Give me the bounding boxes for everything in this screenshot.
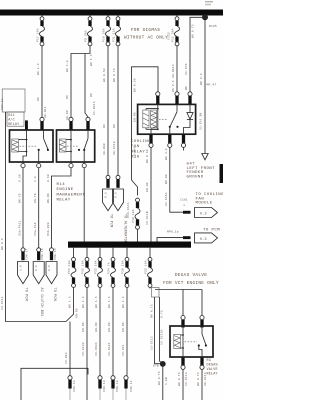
wire R14 coil out bbox=[46, 168, 71, 248]
svg-text:15-DC1: 15-DC1 bbox=[122, 344, 125, 356]
pin C90.12 bbox=[111, 376, 115, 380]
relay R10 box bbox=[138, 104, 196, 134]
svg-text:30-R9: 30-R9 bbox=[66, 110, 69, 120]
svg-text:WK 0.50: WK 0.50 bbox=[146, 149, 149, 163]
wire R11 coil out bbox=[17, 168, 23, 248]
label note R11 A/C RELAY bbox=[7, 112, 24, 127]
svg-text:GN-RD: GN-RD bbox=[122, 322, 125, 332]
svg-text:0.50: 0.50 bbox=[18, 174, 21, 182]
wire degas feed top bbox=[155, 290, 202, 316]
svg-text:GROUND: GROUND bbox=[187, 175, 204, 179]
off-page arrow to PCM mid bbox=[103, 189, 114, 227]
pin C90.14 bbox=[68, 376, 72, 380]
mech link R3 bbox=[185, 341, 198, 343]
svg-text:MANAGEMENT: MANAGEMENT bbox=[57, 193, 86, 197]
svg-text:P10 30A: P10 30A bbox=[103, 28, 106, 42]
svg-text:RD: RD bbox=[37, 97, 40, 101]
svg-text:WK 0.75: WK 0.75 bbox=[178, 372, 181, 386]
svg-text:DEGAS VALVE: DEGAS VALVE bbox=[175, 273, 207, 278]
svg-text:G7B: G7B bbox=[153, 365, 159, 368]
svg-text:P38 10A: P38 10A bbox=[122, 260, 125, 274]
svg-text:BK: BK bbox=[185, 86, 188, 90]
relay R10 coil and resistor bbox=[143, 104, 159, 130]
svg-text:BK 0.75: BK 0.75 bbox=[150, 304, 153, 318]
svg-text:FOR VCT ENGINE ONLY: FOR VCT ENGINE ONLY bbox=[163, 281, 219, 286]
svg-text:ENGINE: ENGINE bbox=[57, 188, 74, 192]
connector pin C90.10 bbox=[116, 175, 120, 187]
fuse P9 20A bbox=[85, 16, 93, 46]
svg-text:R10: R10 bbox=[131, 156, 140, 160]
svg-text:C152: C152 bbox=[168, 32, 171, 40]
svg-text:0.5: 0.5 bbox=[35, 265, 38, 271]
svg-text:31-PA6: 31-PA6 bbox=[185, 63, 188, 75]
connector pin C90.21 bbox=[106, 175, 110, 187]
svg-text:P34 7A: P34 7A bbox=[108, 262, 111, 274]
wire R14 switch to bus 2 bbox=[83, 168, 85, 242]
wire R3 coil out bbox=[178, 369, 188, 400]
pin 30 relay R3 bbox=[200, 316, 204, 320]
svg-text:P35 10A: P35 10A bbox=[82, 260, 85, 274]
svg-text:15-DC13: 15-DC13 bbox=[150, 336, 153, 350]
bus bar B+ top bbox=[0, 10, 223, 16]
svg-text:WK 0.50: WK 0.50 bbox=[103, 68, 106, 82]
wire P33 down bbox=[95, 288, 100, 376]
wire R10 out to cooling fan module bbox=[165, 147, 183, 212]
splice box degas feed bbox=[152, 288, 160, 298]
ground wire 31-EA1 bbox=[200, 20, 217, 154]
svg-text:15-DC13A: 15-DC13A bbox=[161, 329, 164, 345]
svg-text:TO PCM: TO PCM bbox=[24, 288, 28, 301]
fuse P18 10A bbox=[132, 198, 140, 241]
svg-text:WITHOUT AC ONLY: WITHOUT AC ONLY bbox=[124, 36, 168, 41]
off-page arrow cooling fan module bbox=[195, 193, 225, 218]
svg-text:15-R03: 15-R03 bbox=[65, 352, 68, 364]
fuse P31 15A bbox=[113, 16, 121, 46]
wire stub to PCM feed bbox=[157, 238, 183, 242]
pin 86 relay R14 bbox=[69, 117, 73, 121]
svg-text:1.0: 1.0 bbox=[34, 176, 37, 182]
svg-text:31-PA5A: 31-PA5A bbox=[165, 192, 168, 206]
svg-text:AC CLUTCH BOX: AC CLUTCH BOX bbox=[39, 288, 43, 317]
coil out jog bbox=[151, 129, 158, 134]
svg-text:15a-PA6: 15a-PA6 bbox=[34, 222, 37, 236]
svg-text:WK 1.5: WK 1.5 bbox=[122, 296, 125, 308]
off-page arrow to PCM 1 bbox=[18, 262, 29, 301]
svg-text:15-DC13: 15-DC13 bbox=[185, 372, 188, 386]
svg-text:RD: RD bbox=[90, 93, 93, 97]
label box blank bbox=[2, 89, 25, 112]
svg-text:VALVE: VALVE bbox=[207, 368, 218, 372]
fuse P33 10A bbox=[95, 248, 103, 288]
svg-text:L: L bbox=[184, 204, 186, 207]
svg-text:R11: R11 bbox=[8, 114, 15, 118]
svg-text:MP_47: MP_47 bbox=[207, 84, 217, 87]
svg-text:RELAY: RELAY bbox=[8, 123, 19, 127]
fuse P32 10A bbox=[145, 248, 153, 289]
svg-text:916-DA7A: 916-DA7A bbox=[127, 202, 130, 218]
pin 85 relay R11 bbox=[40, 117, 44, 121]
wire diode out bbox=[183, 147, 185, 150]
svg-text:30-PA10: 30-PA10 bbox=[113, 141, 116, 155]
svg-text:30-R11: 30-R11 bbox=[44, 106, 47, 118]
off-page arrow to PCM right bbox=[195, 229, 221, 243]
svg-text:P17 10A: P17 10A bbox=[37, 28, 40, 42]
connector pin C90.16 bbox=[37, 248, 45, 260]
relay R10 switch bbox=[169, 104, 179, 134]
wire P10 to connector bbox=[103, 46, 108, 175]
label COOLING FAN RELAY R10 bbox=[131, 140, 151, 160]
ground arrow G47 bbox=[187, 154, 216, 180]
svg-text:DEGAS: DEGAS bbox=[207, 364, 218, 368]
svg-text:TO PCM: TO PCM bbox=[108, 214, 112, 227]
pin C90.13 bbox=[98, 376, 102, 380]
svg-text:0.5: 0.5 bbox=[115, 192, 118, 198]
svg-text:R3: R3 bbox=[207, 359, 211, 363]
svg-text:C90.1a: C90.1a bbox=[1, 98, 4, 110]
fuse P55 10A bbox=[68, 248, 76, 296]
svg-text:0.5: 0.5 bbox=[105, 192, 108, 198]
svg-text:21-R015: 21-R015 bbox=[93, 101, 96, 115]
fuse P35 10A bbox=[82, 248, 90, 288]
svg-text:0.75: 0.75 bbox=[161, 310, 164, 318]
svg-text:0.5: 0.5 bbox=[48, 265, 51, 271]
relay R3 coil bbox=[174, 326, 184, 357]
fuse P10 30A bbox=[103, 16, 111, 46]
relay R14 coil bbox=[59, 130, 72, 162]
svg-text:C90.12: C90.12 bbox=[116, 380, 119, 392]
svg-text:P15 30A: P15 30A bbox=[172, 28, 175, 42]
wire feed to R10 coil bbox=[127, 67, 158, 218]
svg-text:MODULE: MODULE bbox=[196, 202, 213, 206]
wire R11 switch out bbox=[34, 168, 39, 248]
svg-text:30-R015: 30-R015 bbox=[172, 64, 175, 78]
svg-text:GN-RD: GN-RD bbox=[82, 322, 85, 332]
off-page arrow to PCM 2 bbox=[46, 262, 57, 301]
relay R3 switch bbox=[198, 326, 207, 357]
wire P34 down bbox=[108, 288, 113, 376]
svg-text:RD: RD bbox=[66, 95, 69, 99]
left box edge wire bbox=[1, 98, 74, 321]
node on bus bar bbox=[202, 14, 208, 20]
wire node down bbox=[158, 364, 168, 400]
svg-text:GN-RD: GN-RD bbox=[76, 308, 79, 318]
wire fuse P17 to relay R11 bbox=[37, 46, 47, 118]
svg-text:1-DB: 1-DB bbox=[165, 377, 168, 385]
wire R3 switch out bbox=[197, 369, 207, 400]
wire P15 to relay R10 bbox=[172, 46, 177, 92]
svg-text:R135: R135 bbox=[209, 25, 217, 28]
svg-text:15-DO34: 15-DO34 bbox=[95, 342, 98, 356]
relay R11 coil bbox=[12, 130, 28, 162]
decor top-right bbox=[205, 1, 213, 2]
svg-text:COOLING: COOLING bbox=[131, 140, 151, 144]
bottom box edge bbox=[21, 368, 88, 400]
svg-text:C90.15: C90.15 bbox=[54, 248, 57, 260]
svg-text:1.0: 1.0 bbox=[20, 265, 23, 271]
svg-text:0.3: 0.3 bbox=[200, 213, 207, 217]
relay R14 switch bbox=[78, 130, 88, 162]
relay R3 box bbox=[170, 326, 213, 357]
pin 87a relay R11 bbox=[38, 162, 40, 163]
svg-text:RELAY: RELAY bbox=[57, 199, 71, 203]
pin 87 relay R3 bbox=[200, 358, 203, 366]
wire P35 down bbox=[82, 288, 87, 400]
svg-text:WK 0.75: WK 0.75 bbox=[192, 24, 195, 38]
svg-text:WK 0.50: WK 0.50 bbox=[133, 78, 136, 92]
svg-text:C90.16: C90.16 bbox=[41, 248, 44, 260]
fuse P17 10A bbox=[37, 16, 45, 46]
svg-text:P55 10A: P55 10A bbox=[68, 260, 71, 274]
svg-text:WK 1.5: WK 1.5 bbox=[69, 296, 72, 308]
pin 30 relay R14 bbox=[86, 117, 90, 121]
svg-text:BK-RD: BK-RD bbox=[47, 193, 50, 203]
label R3 DEGAS VALVE RELAY bbox=[207, 359, 218, 377]
svg-text:WK 1.0: WK 1.0 bbox=[66, 60, 69, 72]
off-page arrow to AC clutch bbox=[33, 262, 44, 317]
pin 31 relay R10 bbox=[182, 135, 185, 144]
svg-text:FOR SIGMAS: FOR SIGMAS bbox=[131, 28, 160, 33]
pin 85 relay R14 bbox=[70, 162, 72, 163]
svg-text:P31 15A: P31 15A bbox=[113, 28, 116, 42]
svg-text:WK 0.5: WK 0.5 bbox=[1, 238, 4, 250]
svg-text:GN-RD: GN-RD bbox=[146, 182, 149, 192]
svg-text:WK 4.0: WK 4.0 bbox=[165, 148, 168, 160]
svg-text:RD: RD bbox=[113, 124, 116, 128]
svg-text:TO PCM: TO PCM bbox=[52, 288, 56, 301]
svg-text:WK 1.0: WK 1.0 bbox=[37, 63, 40, 75]
pin C90.11 bbox=[124, 376, 128, 380]
svg-text:15-DC33: 15-DC33 bbox=[82, 342, 85, 356]
svg-text:RD 2.5: RD 2.5 bbox=[172, 80, 175, 92]
mech link R14 bbox=[67, 145, 78, 147]
wire split from P9 to R14 coil and switch bbox=[66, 46, 96, 120]
pin to PCM bbox=[183, 236, 191, 239]
svg-text:GN-YE: GN-YE bbox=[34, 193, 37, 203]
svg-text:RD: RD bbox=[103, 124, 106, 128]
pin 85 relay R10 bbox=[188, 92, 192, 96]
svg-text:WK 0.75: WK 0.75 bbox=[113, 68, 116, 82]
svg-text:WK 1.5: WK 1.5 bbox=[108, 296, 111, 308]
pin 87 relay R11 bbox=[22, 162, 24, 163]
svg-text:31-EA1 BK: 31-EA1 BK bbox=[200, 112, 203, 130]
svg-text:A/C: A/C bbox=[8, 118, 15, 123]
off-page arrow to alternator bbox=[113, 189, 127, 243]
pin 86 relay R3 bbox=[181, 316, 185, 320]
svg-text:P33 10A: P33 10A bbox=[95, 260, 98, 274]
fuse P34 7A bbox=[108, 248, 116, 288]
wire P38 down bbox=[122, 288, 127, 376]
svg-text:BK-RD: BK-RD bbox=[165, 174, 168, 184]
wire pair to node bbox=[150, 297, 163, 364]
svg-text:R14: R14 bbox=[57, 183, 66, 187]
svg-text:30-R08: 30-R08 bbox=[103, 143, 106, 155]
pin 85b relay R10 bbox=[149, 135, 152, 144]
node G7B bbox=[160, 361, 166, 367]
pin 86 relay R10 bbox=[156, 92, 160, 96]
svg-text:P9 20A: P9 20A bbox=[85, 30, 88, 42]
relay R10 diode bbox=[184, 104, 194, 134]
svg-text:GN-RD: GN-RD bbox=[95, 322, 98, 332]
svg-text:WK 0.75: WK 0.75 bbox=[197, 372, 200, 386]
svg-text:15-DA21: 15-DA21 bbox=[108, 342, 111, 356]
relay R11 box bbox=[10, 130, 54, 162]
svg-text:31b-PA11: 31b-PA11 bbox=[17, 220, 21, 236]
pin C181 bbox=[183, 211, 191, 214]
svg-text:0.3: 0.3 bbox=[200, 238, 207, 242]
svg-text:0.50: 0.50 bbox=[47, 174, 50, 182]
svg-text:GN-RD: GN-RD bbox=[108, 322, 111, 332]
wire P55 branch down bbox=[65, 296, 79, 375]
relay R11 switch bbox=[38, 130, 49, 162]
svg-text:WK 1.5: WK 1.5 bbox=[90, 54, 93, 66]
svg-text:C90.13: C90.13 bbox=[103, 380, 106, 392]
relay R14 box bbox=[57, 130, 95, 162]
svg-text:C90.17: C90.17 bbox=[26, 248, 29, 260]
pin 87 relay R10 bbox=[168, 135, 171, 144]
svg-text:BK 2.5: BK 2.5 bbox=[200, 73, 203, 85]
pin 87 relay R14 bbox=[83, 162, 85, 163]
wire R10 coil to bus bbox=[146, 147, 151, 241]
svg-text:WK 1.5: WK 1.5 bbox=[82, 296, 85, 308]
svg-text:15-DA7B: 15-DA7B bbox=[146, 211, 149, 225]
svg-text:91b-R20: 91b-R20 bbox=[46, 222, 50, 236]
svg-text:BK-YE: BK-YE bbox=[18, 193, 21, 203]
svg-text:TO PCM: TO PCM bbox=[203, 229, 220, 233]
svg-text:RELAY: RELAY bbox=[207, 373, 218, 377]
connector pin C90.15 bbox=[50, 248, 58, 260]
svg-text:WK 0.75: WK 0.75 bbox=[158, 371, 161, 385]
svg-text:FAN: FAN bbox=[131, 145, 140, 149]
right edge bus stub bbox=[220, 164, 224, 183]
wire P31 to connector bbox=[113, 46, 118, 175]
mech link R10 bbox=[159, 119, 168, 121]
pin 30 relay R10 bbox=[175, 92, 179, 96]
svg-text:13-PA11: 13-PA11 bbox=[1, 296, 4, 310]
label R14 ENGINE MANAGEMENT RELAY bbox=[57, 183, 86, 203]
svg-text:WK 1.5: WK 1.5 bbox=[95, 296, 98, 308]
svg-text:30-DC14: 30-DC14 bbox=[204, 372, 207, 386]
fuse P15 30A bbox=[168, 16, 180, 46]
fuse P38 10A bbox=[122, 248, 130, 288]
svg-text:GN-RD: GN-RD bbox=[133, 112, 136, 122]
pin 30 relay R11 bbox=[25, 120, 28, 129]
svg-text:P32 10A: P32 10A bbox=[145, 260, 148, 274]
mech link R11 bbox=[20, 145, 38, 147]
bus bar 2 bbox=[68, 242, 191, 248]
pin 85 relay R3 bbox=[181, 358, 184, 366]
svg-text:C90.14: C90.14 bbox=[73, 380, 76, 392]
wire node to relay R10 bbox=[185, 17, 205, 92]
svg-text:RELAY: RELAY bbox=[131, 150, 145, 154]
svg-text:MP8_1a: MP8_1a bbox=[167, 231, 179, 234]
connector pin C90.17 bbox=[21, 248, 29, 260]
svg-text:P18 10A: P18 10A bbox=[132, 209, 135, 223]
svg-text:C181: C181 bbox=[180, 199, 188, 202]
svg-text:C90.11: C90.11 bbox=[130, 380, 133, 392]
